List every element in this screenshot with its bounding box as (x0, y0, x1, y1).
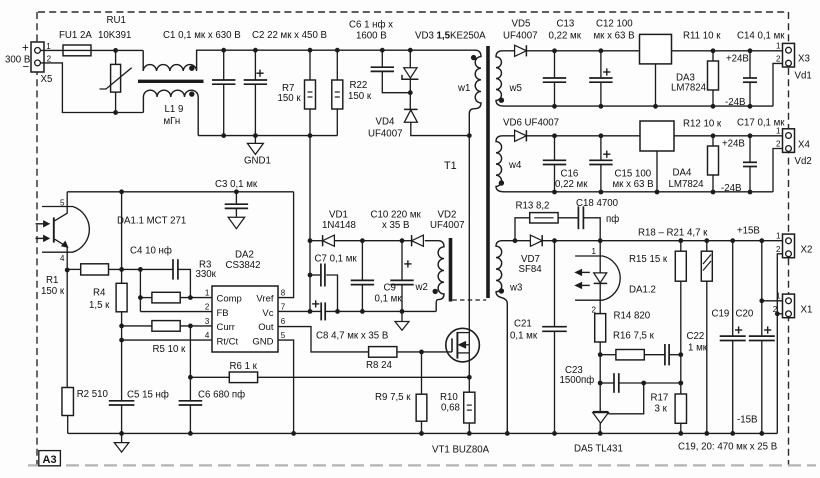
svg-text:R11 10 к: R11 10 к (683, 30, 721, 41)
svg-text:C3 0,1 мк: C3 0,1 мк (215, 179, 258, 190)
svg-text:1: 1 (776, 292, 781, 301)
svg-text:R2 510: R2 510 (77, 389, 109, 400)
svg-text:5: 5 (60, 199, 65, 208)
svg-text:DA5 TL431: DA5 TL431 (574, 444, 623, 455)
svg-text:5: 5 (281, 331, 286, 340)
svg-text:2: 2 (776, 140, 781, 149)
svg-text:Curr: Curr (217, 322, 235, 333)
svg-text:1: 1 (776, 127, 781, 136)
svg-text:L1 9: L1 9 (165, 104, 184, 115)
svg-text:C16: C16 (561, 169, 579, 180)
svg-text:R9 7,5 к: R9 7,5 к (375, 392, 411, 403)
svg-text:+15В: +15В (737, 226, 760, 237)
svg-text:C6 1 нф x: C6 1 нф x (349, 20, 393, 31)
svg-text:SF84: SF84 (519, 264, 543, 275)
svg-text:C18 4700: C18 4700 (576, 198, 619, 209)
svg-text:Comp: Comp (217, 294, 242, 305)
svg-text:2: 2 (776, 245, 781, 254)
svg-text:C19, 20: 470 мк x 25 В: C19, 20: 470 мк x 25 В (678, 442, 777, 453)
svg-text:R16 7,5 к: R16 7,5 к (613, 331, 655, 342)
svg-text:w2: w2 (415, 282, 428, 293)
svg-text:R8 24: R8 24 (366, 360, 392, 371)
svg-text:VD4: VD4 (376, 117, 395, 128)
svg-text:R17: R17 (651, 393, 669, 404)
svg-text:0,1 мк: 0,1 мк (375, 294, 403, 305)
svg-text:−: − (23, 62, 30, 74)
svg-text:150 к: 150 к (278, 93, 302, 104)
svg-text:X5: X5 (41, 74, 53, 85)
svg-text:1N4148: 1N4148 (322, 220, 356, 231)
svg-text:0,22 мк: 0,22 мк (549, 30, 582, 41)
svg-text:R4: R4 (93, 287, 106, 298)
svg-text:C2 22 мк x 450 В: C2 22 мк x 450 В (252, 30, 327, 41)
svg-text:3 к: 3 к (655, 404, 668, 415)
svg-text:0,1 мк: 0,1 мк (510, 331, 538, 342)
svg-text:CS3842: CS3842 (226, 260, 261, 271)
svg-text:-24В: -24В (725, 97, 745, 108)
svg-text:DA1.1 MCT 271: DA1.1 MCT 271 (117, 216, 186, 227)
svg-text:4: 4 (60, 254, 65, 263)
svg-text:C8 4,7 мк x 35 В: C8 4,7 мк x 35 В (316, 331, 388, 342)
svg-text:1500пф: 1500пф (560, 375, 595, 386)
svg-text:Vc: Vc (262, 308, 273, 319)
svg-text:пф: пф (606, 214, 619, 225)
svg-text:2: 2 (776, 55, 781, 64)
svg-text:X2: X2 (801, 245, 813, 256)
svg-text:UF4007: UF4007 (430, 220, 464, 231)
svg-text:VD6 UF4007: VD6 UF4007 (503, 118, 559, 129)
svg-text:1: 1 (46, 42, 51, 51)
svg-text:-24В: -24В (721, 183, 741, 194)
svg-text:FB: FB (217, 308, 229, 319)
svg-text:R1: R1 (46, 275, 58, 286)
svg-text:Vd1: Vd1 (795, 71, 812, 82)
svg-text:R22: R22 (350, 80, 368, 91)
svg-text:6: 6 (281, 317, 286, 326)
svg-text:мк x 63 В: мк x 63 В (613, 179, 654, 190)
svg-text:R5 10 к: R5 10 к (153, 344, 187, 355)
svg-text:T1: T1 (444, 160, 457, 172)
svg-text:VD5: VD5 (512, 18, 531, 29)
svg-text:C4 10 нф: C4 10 нф (130, 246, 172, 257)
svg-text:DA4: DA4 (673, 168, 692, 179)
svg-text:C15 100: C15 100 (615, 169, 652, 180)
svg-text:R6 1 к: R6 1 к (230, 361, 258, 372)
svg-text:R18 – R21 4,7 к: R18 – R21 4,7 к (638, 228, 708, 239)
svg-text:C1 0,1 мк x 630 В: C1 0,1 мк x 630 В (163, 30, 241, 41)
svg-text:150 к: 150 к (348, 91, 372, 102)
svg-text:+24В: +24В (722, 139, 745, 150)
svg-text:R10: R10 (440, 392, 458, 403)
svg-text:GND: GND (252, 336, 273, 347)
svg-text:LM7824: LM7824 (669, 179, 705, 190)
svg-text:1: 1 (205, 288, 210, 297)
svg-text:R15 15 к: R15 15 к (629, 254, 668, 265)
svg-text:w1: w1 (457, 83, 470, 94)
svg-text:VT1 BUZ80A: VT1 BUZ80A (432, 445, 490, 456)
svg-text:RU1: RU1 (107, 15, 126, 26)
svg-text:4: 4 (205, 331, 210, 340)
svg-text:2: 2 (773, 305, 778, 314)
svg-text:R12 10 к: R12 10 к (683, 119, 722, 130)
svg-text:1: 1 (776, 42, 781, 51)
svg-text:C20: C20 (736, 309, 754, 320)
svg-text:X3: X3 (798, 54, 810, 65)
svg-text:C10 220 мк: C10 220 мк (371, 210, 422, 221)
svg-text:C13: C13 (557, 18, 575, 29)
svg-text:7: 7 (281, 303, 286, 312)
svg-text:X1: X1 (801, 305, 813, 316)
svg-text:C21: C21 (514, 319, 532, 330)
svg-text:Out: Out (258, 322, 274, 333)
svg-text:UF4007: UF4007 (368, 129, 402, 140)
svg-text:Rt/Ct: Rt/Ct (217, 336, 239, 347)
svg-text:FU1 2A: FU1 2A (59, 30, 92, 41)
svg-text:VD3 1,5KE250A: VD3 1,5KE250A (415, 30, 486, 41)
svg-text:2: 2 (47, 54, 52, 63)
svg-text:1: 1 (592, 247, 597, 256)
svg-text:C12 100: C12 100 (596, 18, 633, 29)
svg-text:Vd2: Vd2 (795, 156, 812, 167)
svg-text:X4: X4 (798, 140, 810, 151)
svg-text:VD1: VD1 (329, 210, 348, 221)
svg-text:330к: 330к (196, 269, 217, 280)
svg-text:1: 1 (776, 232, 781, 241)
svg-text:w3: w3 (509, 283, 522, 294)
svg-text:1 мк: 1 мк (688, 343, 708, 354)
svg-text:C19: C19 (712, 309, 730, 320)
svg-text:+24В: +24В (726, 54, 749, 65)
svg-text:+: + (22, 43, 29, 55)
svg-text:3: 3 (205, 317, 210, 326)
svg-text:w4: w4 (508, 160, 522, 171)
svg-text:0,22 мк: 0,22 мк (555, 179, 588, 190)
svg-text:C6 680 пф: C6 680 пф (198, 389, 245, 400)
svg-text:UF4007: UF4007 (503, 30, 537, 41)
svg-text:0,68: 0,68 (441, 403, 460, 414)
svg-text:VD2: VD2 (438, 210, 457, 221)
svg-text:x 35 В: x 35 В (382, 220, 409, 231)
svg-text:R13 8,2: R13 8,2 (516, 201, 550, 212)
svg-text:мГн: мГн (164, 116, 181, 127)
svg-text:-15В: -15В (737, 415, 757, 426)
svg-text:C14 0,1 мк: C14 0,1 мк (737, 30, 785, 41)
svg-text:C7 0,1 мк: C7 0,1 мк (315, 254, 358, 265)
svg-text:GND1: GND1 (244, 156, 271, 167)
svg-text:C5 15 нф: C5 15 нф (127, 389, 169, 400)
svg-text:DA1.2: DA1.2 (629, 285, 656, 296)
svg-text:8: 8 (281, 288, 286, 297)
svg-text:R14 820: R14 820 (614, 311, 651, 322)
svg-text:10K391: 10K391 (98, 30, 131, 41)
svg-text:C9: C9 (384, 283, 396, 294)
svg-text:DA2: DA2 (235, 250, 254, 261)
svg-text:150 к: 150 к (41, 286, 65, 297)
svg-text:2: 2 (592, 306, 597, 315)
svg-text:A3: A3 (43, 454, 57, 466)
svg-text:C22: C22 (687, 331, 705, 342)
svg-text:Vref: Vref (256, 294, 273, 305)
svg-text:LM7824: LM7824 (671, 83, 707, 94)
svg-text:1,5 к: 1,5 к (89, 300, 110, 311)
svg-text:w5: w5 (509, 83, 522, 94)
svg-text:мк x 63 В: мк x 63 В (594, 30, 635, 41)
svg-text:2: 2 (205, 303, 210, 312)
svg-text:1600 В: 1600 В (356, 30, 387, 41)
